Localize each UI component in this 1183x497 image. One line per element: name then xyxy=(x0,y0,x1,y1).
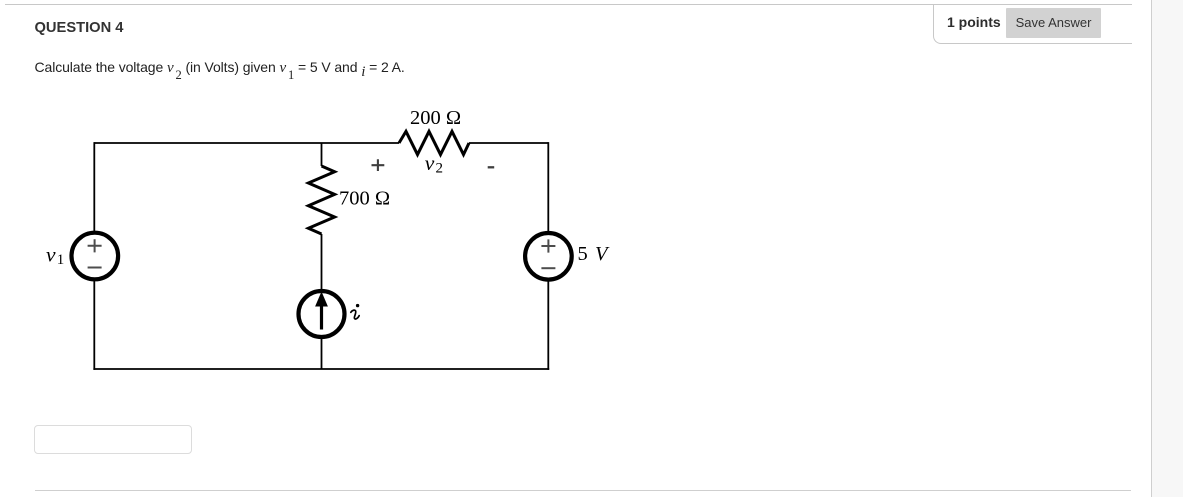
circuit schematic xyxy=(0,0,700,420)
wire: top-left segment xyxy=(94,142,399,144)
wire: right branch upper xyxy=(547,142,549,232)
question text xyxy=(35,60,405,76)
svg-text:700 Ω: 700 Ω xyxy=(339,188,390,210)
label 200 ohm xyxy=(410,107,461,129)
QUESTION 4 heading xyxy=(35,21,124,36)
svg-text:1: 1 xyxy=(57,252,65,268)
wire: bottom segment xyxy=(93,368,549,370)
bottom border line xyxy=(35,490,1131,491)
label 5 V xyxy=(578,243,611,265)
svg-text:5: 5 xyxy=(578,243,588,265)
points / save box xyxy=(933,5,1132,44)
voltage source V1 plus sign xyxy=(88,239,102,252)
wire: middle branch lower xyxy=(321,337,323,369)
wire: top-right segment xyxy=(469,142,548,144)
wire: right branch lower xyxy=(547,281,549,370)
svg-text:V: V xyxy=(595,243,610,265)
wire: left branch lower xyxy=(93,280,95,370)
label 700 ohm xyxy=(339,188,390,210)
Save Answer button xyxy=(1006,8,1101,38)
right gutter background xyxy=(1151,0,1183,497)
top border line xyxy=(5,4,1132,5)
svg-text:v: v xyxy=(46,242,56,266)
label plus polarity v2 xyxy=(372,159,385,171)
answer input box xyxy=(34,425,192,454)
voltage source V1 minus sign xyxy=(88,267,102,269)
current source I1 body xyxy=(299,291,345,337)
wire: middle branch upper xyxy=(321,143,323,166)
svg-text:2: 2 xyxy=(436,161,444,177)
resistor R2 200 ohm xyxy=(399,131,469,154)
wire: middle branch mid xyxy=(321,234,323,291)
current source I1 arrow xyxy=(315,292,328,330)
1 points label xyxy=(947,15,1001,29)
voltage source V2 body (5V) xyxy=(525,233,572,280)
wire: left branch upper xyxy=(93,142,95,232)
label i xyxy=(351,304,360,319)
resistor R1 700 ohm xyxy=(308,166,334,234)
svg-text:v: v xyxy=(425,151,435,175)
label v2 xyxy=(425,151,443,177)
label minus polarity v2 xyxy=(488,166,495,168)
svg-text:200 Ω: 200 Ω xyxy=(410,107,461,129)
label v1 xyxy=(46,242,64,268)
voltage source V2 plus sign xyxy=(541,239,555,252)
voltage source V1 body xyxy=(72,233,119,280)
voltage source V2 minus sign xyxy=(541,267,555,269)
